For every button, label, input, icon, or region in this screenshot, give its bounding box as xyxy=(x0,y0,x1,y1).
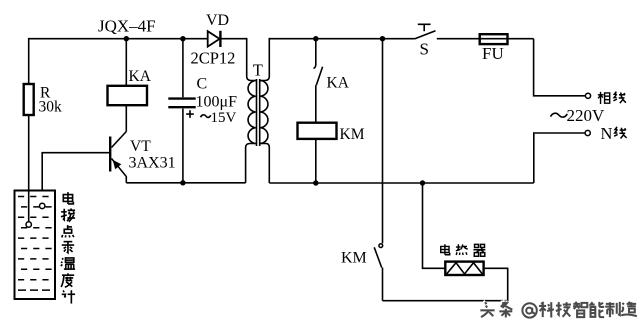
contactor coil KM xyxy=(298,123,337,139)
transistor VT base bar xyxy=(109,137,111,172)
wire phase feed down xyxy=(534,39,586,96)
fuse FU xyxy=(480,34,508,44)
label thermometer (CJK dian jie dian gong wen du ji) xyxy=(61,192,75,303)
wire top-left horizontal (DC bus) xyxy=(29,38,208,40)
junction node on top bus at capacitor branch xyxy=(180,36,185,41)
wire KM contact vertical (crosses bottom bus) xyxy=(382,39,384,244)
wire bottom-right horizontal (neutral bus) xyxy=(269,182,534,184)
wire bottom-left horizontal (emitter bus) xyxy=(126,182,245,184)
relay coil KA xyxy=(108,86,148,105)
diode VD triangle xyxy=(208,31,220,46)
wire into thermometer left xyxy=(28,191,30,222)
svg-text:220V: 220V xyxy=(567,106,606,125)
svg-text:3AX31: 3AX31 xyxy=(129,155,176,172)
transformer T primary (right) winding xyxy=(260,38,269,81)
switch S tee mark xyxy=(418,24,431,31)
label heater (CJK dian re qi) xyxy=(441,244,486,256)
svg-text:KA: KA xyxy=(129,68,152,85)
contact KM fixed circle xyxy=(379,244,383,248)
diode VD cathode bar xyxy=(219,31,221,47)
svg-text:KA: KA xyxy=(327,75,350,92)
terminal N line xyxy=(585,130,590,135)
svg-text:KM: KM xyxy=(341,250,367,267)
capacitor polarity plus xyxy=(186,110,194,118)
wire capacitor bottom lead xyxy=(182,109,184,183)
heater zigzag element xyxy=(447,263,483,274)
heater body rect xyxy=(445,262,483,275)
thermometer mercury dashes xyxy=(18,197,53,291)
svg-text:2CP12: 2CP12 xyxy=(191,49,236,68)
wire switch S to fuse xyxy=(437,38,534,40)
junction node emitter bus at capacitor xyxy=(180,180,185,185)
svg-text:N: N xyxy=(601,124,613,143)
svg-text:S: S xyxy=(420,40,429,59)
KA contact blade xyxy=(316,67,322,85)
thermometer body xyxy=(15,191,56,300)
wire heater bottom loop xyxy=(383,268,508,300)
wire KA coil top lead xyxy=(125,39,127,86)
junction node neutral bus at heater branch xyxy=(420,180,425,185)
wire N feed left and down xyxy=(534,133,585,183)
junction node on top bus at KA branch xyxy=(124,36,129,41)
wire KM coil bottom lead xyxy=(315,139,317,183)
svg-text:100μF: 100μF xyxy=(196,94,238,111)
wire base to thermometer branch xyxy=(42,153,110,204)
watermark white relief layer xyxy=(479,300,635,316)
svg-text:T: T xyxy=(253,61,263,80)
svg-text:KM: KM xyxy=(340,126,365,143)
terminal phase line xyxy=(585,93,590,98)
svg-text:30k: 30k xyxy=(39,99,63,116)
wire top-right horizontal (mains bus) xyxy=(269,38,414,40)
svg-text:VT: VT xyxy=(130,138,151,155)
wire KA contact to KM coil xyxy=(315,85,317,123)
wire heater left lead to neutral bus xyxy=(423,183,446,268)
capacitor C plates xyxy=(168,97,195,99)
wire capacitor top lead xyxy=(182,39,184,98)
svg-text:FU: FU xyxy=(482,44,504,63)
svg-text:JQX–4F: JQX–4F xyxy=(98,17,156,36)
transistor VT emitter with arrow xyxy=(112,159,127,183)
wire KM contact bottom lead xyxy=(382,268,384,301)
resistor R xyxy=(24,84,34,115)
transformer T secondary (left) winding xyxy=(247,38,256,81)
svg-text:VD: VD xyxy=(206,12,229,29)
label ~15V xyxy=(201,115,211,118)
switch S blade xyxy=(415,31,436,39)
wire left vertical from top bus to resistor xyxy=(28,38,30,84)
junction node top bus at KM contact branch xyxy=(380,36,385,41)
transistor VT collector diagonal xyxy=(112,132,127,148)
transformer T core lines xyxy=(256,79,258,146)
thermometer contact right xyxy=(40,203,45,208)
junction node top bus at KA contact branch xyxy=(313,36,318,41)
contact KM blade xyxy=(374,247,382,267)
svg-text:15V: 15V xyxy=(211,110,237,126)
wire top-left to cathode continuation xyxy=(220,38,246,40)
wire resistor to thermometer left contact xyxy=(28,115,30,222)
wire KA coil bottom to collector xyxy=(125,105,127,131)
label ~220V xyxy=(551,113,568,117)
svg-text:C: C xyxy=(197,76,208,93)
watermark gray layer: tou tiao @ keji zhineng zhizao xyxy=(480,302,636,318)
junction node bottom bus at KM coil xyxy=(313,180,318,185)
label phase line (CJK xiang xian) xyxy=(598,92,626,104)
thermometer contact left xyxy=(26,222,31,227)
wire KA contact top lead with hook xyxy=(314,39,316,69)
